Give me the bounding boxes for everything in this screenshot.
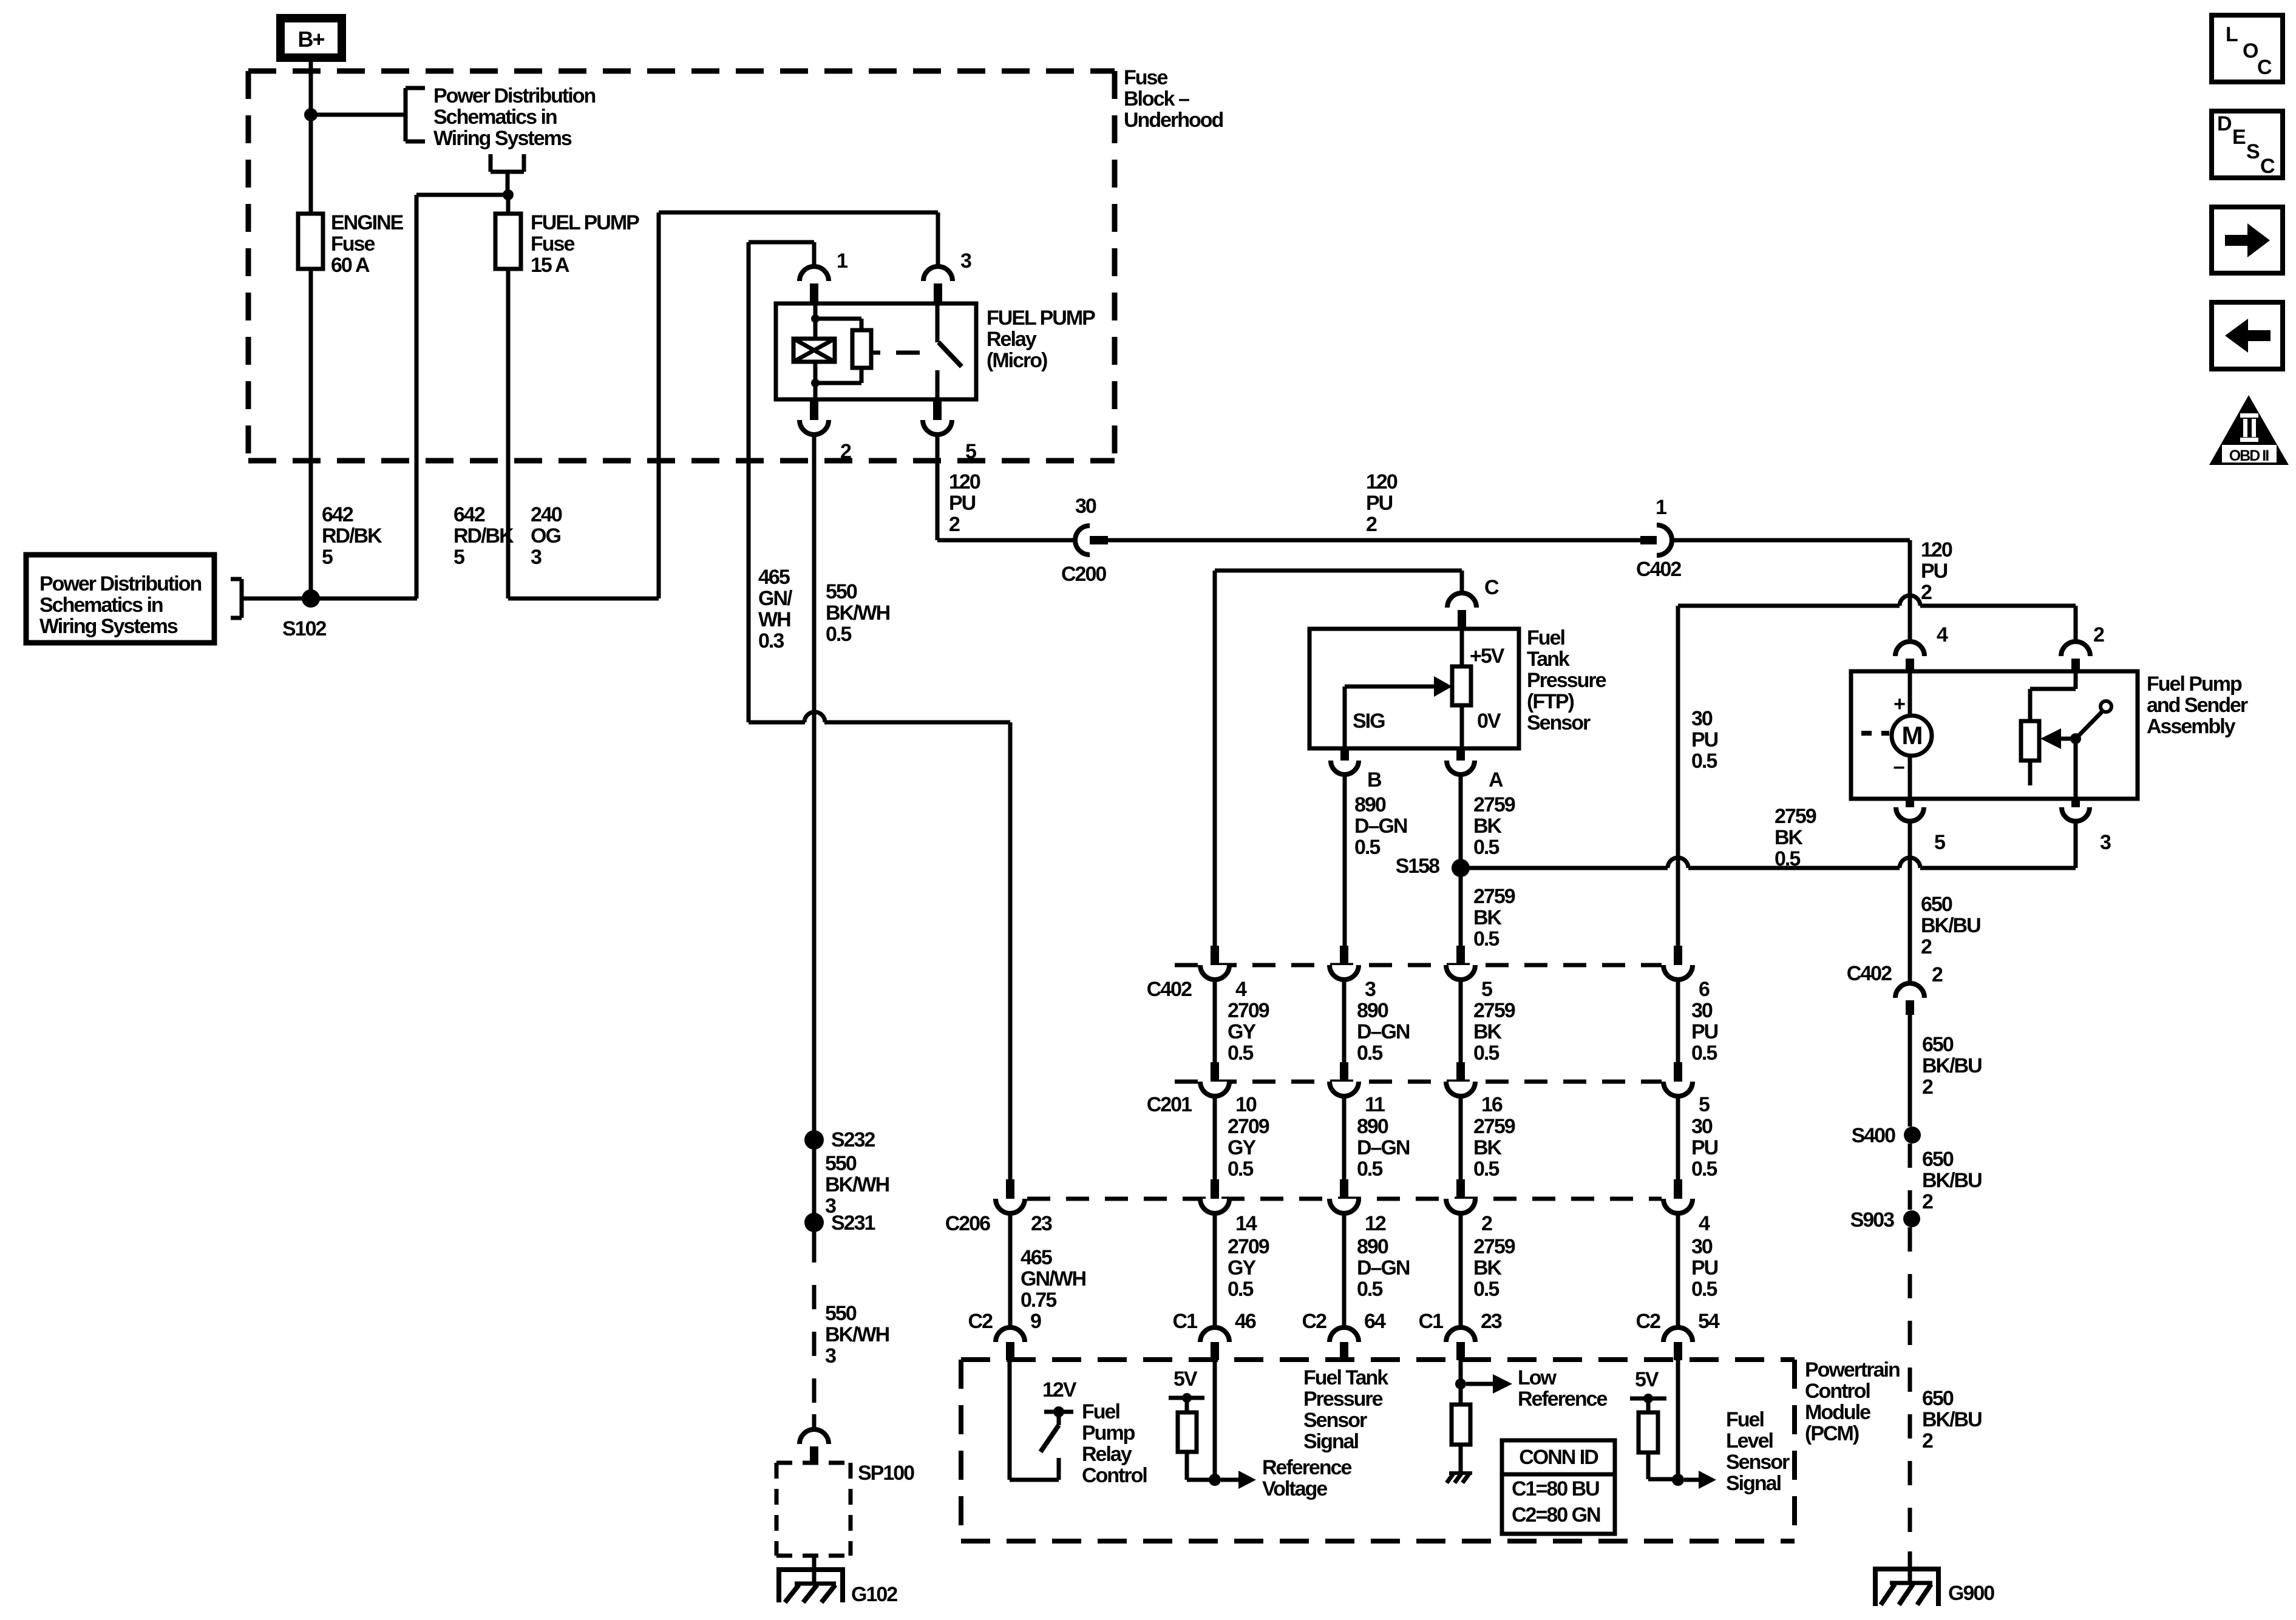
fuse: ENGINE Fuse 60 A bbox=[298, 214, 323, 269]
junction dot at power distribution tap bbox=[304, 108, 318, 121]
svg-text:Power Distribution: Power Distribution bbox=[433, 84, 595, 107]
svg-text:C1=80 BU: C1=80 BU bbox=[1512, 1477, 1599, 1500]
svg-text:D–GN: D–GN bbox=[1357, 1136, 1410, 1159]
svg-text:GN/WH: GN/WH bbox=[1021, 1267, 1086, 1290]
svg-text:23: 23 bbox=[1481, 1310, 1502, 1333]
svg-text:GY: GY bbox=[1228, 1136, 1256, 1159]
icon LOC bbox=[2212, 15, 2283, 82]
svg-text:Assembly: Assembly bbox=[2147, 715, 2236, 738]
svg-text:Pump: Pump bbox=[1082, 1422, 1135, 1445]
relay FUEL PUMP Relay (Micro) box bbox=[776, 303, 976, 399]
svg-text:B: B bbox=[1367, 768, 1382, 791]
svg-text:BK/BU: BK/BU bbox=[1922, 1169, 1982, 1192]
svg-text:Schematics in: Schematics in bbox=[433, 106, 557, 129]
svg-text:C402: C402 bbox=[1147, 978, 1192, 1001]
svg-text:4: 4 bbox=[1699, 1212, 1710, 1235]
svg-text:2: 2 bbox=[1922, 1429, 1933, 1452]
svg-text:2759: 2759 bbox=[1473, 1235, 1515, 1258]
svg-text:C: C bbox=[1484, 576, 1499, 599]
FTP pin A connector bbox=[1456, 748, 1465, 761]
wire 890 D-GN pin B down bbox=[1343, 774, 1347, 946]
svg-text:PU: PU bbox=[1921, 560, 1948, 583]
svg-text:C2=80 GN: C2=80 GN bbox=[1512, 1503, 1600, 1527]
svg-text:C: C bbox=[2260, 155, 2275, 178]
svg-text:642: 642 bbox=[453, 503, 485, 526]
connector row C402 dashed line bbox=[1175, 963, 1662, 968]
svg-text:120: 120 bbox=[1366, 470, 1398, 493]
svg-text:2709: 2709 bbox=[1228, 1235, 1269, 1258]
grid column wires bbox=[1213, 980, 1217, 1062]
FTP pin C connector bbox=[1447, 593, 1476, 608]
wire junction to 642 branch bbox=[416, 193, 508, 197]
wire B+ down to S102 bbox=[309, 62, 313, 214]
PCM pin C1 46 bbox=[1200, 1327, 1229, 1342]
svg-text:0.75: 0.75 bbox=[1021, 1289, 1056, 1312]
wire S158 to assembly pin 3 with hops bbox=[1461, 866, 1668, 870]
splice S400 bbox=[1904, 1127, 1921, 1144]
svg-text:BK/WH: BK/WH bbox=[825, 1173, 889, 1196]
svg-text:5: 5 bbox=[1699, 1093, 1710, 1116]
svg-text:120: 120 bbox=[1921, 538, 1952, 561]
assembly pin 4 connector bbox=[1895, 642, 1924, 656]
svg-text:GY: GY bbox=[1228, 1020, 1256, 1043]
PCM fuel level sensor signal bbox=[1676, 1360, 1680, 1480]
svg-text:0.5: 0.5 bbox=[1473, 1157, 1499, 1181]
left reference box: Power Distribution Schematics in Wiring Systems bbox=[26, 555, 214, 643]
svg-text:Schematics in: Schematics in bbox=[39, 594, 163, 617]
svg-text:30: 30 bbox=[1691, 707, 1713, 730]
svg-text:11: 11 bbox=[1365, 1093, 1385, 1116]
svg-text:2: 2 bbox=[1932, 963, 1943, 986]
svg-text:C402: C402 bbox=[1847, 962, 1892, 985]
assembly pin 2 connector bbox=[2061, 642, 2090, 656]
svg-text:A: A bbox=[1489, 768, 1503, 791]
connector pin 5 at row 1590 bbox=[1456, 946, 1465, 965]
svg-text:B+: B+ bbox=[297, 27, 324, 52]
svg-text:Signal: Signal bbox=[1303, 1430, 1359, 1453]
svg-text:0.3: 0.3 bbox=[758, 629, 784, 652]
relay coil parallel resistor bbox=[815, 317, 861, 321]
wire 465 GN/WH 0.75 below C206 bbox=[1008, 1213, 1013, 1327]
fuel level sender resistor bbox=[2074, 671, 2078, 689]
svg-text:C206: C206 bbox=[945, 1212, 990, 1235]
svg-text:2759: 2759 bbox=[1775, 805, 1816, 828]
svg-text:30: 30 bbox=[1691, 1115, 1713, 1138]
svg-text:D–GN: D–GN bbox=[1357, 1256, 1410, 1279]
connector pin 10 at row 1782 bbox=[1211, 1062, 1219, 1082]
svg-text:2: 2 bbox=[1921, 935, 1932, 958]
svg-text:S903: S903 bbox=[1850, 1208, 1894, 1232]
icon right arrow bbox=[2212, 207, 2283, 273]
PCM fuel pump relay control driver bbox=[1008, 1360, 1012, 1480]
connector pin 12 at row 1975 bbox=[1340, 1179, 1348, 1199]
junction dot above fuel pump fuse bbox=[503, 189, 514, 200]
PCM pin C1 23 bbox=[1446, 1327, 1475, 1342]
splice S231 bbox=[804, 1213, 824, 1232]
svg-text:2: 2 bbox=[1921, 581, 1932, 604]
Fuel Pump and Sender Assembly box bbox=[1851, 671, 2138, 799]
svg-text:Voltage: Voltage bbox=[1262, 1477, 1327, 1500]
svg-text:WH: WH bbox=[758, 608, 790, 631]
svg-text:−: − bbox=[1893, 756, 1904, 779]
svg-text:C2: C2 bbox=[1302, 1310, 1327, 1333]
svg-text:S231: S231 bbox=[831, 1212, 875, 1235]
svg-text:+5V: +5V bbox=[1470, 645, 1505, 668]
svg-text:Control: Control bbox=[1082, 1464, 1147, 1487]
relay coil bbox=[813, 303, 818, 339]
svg-text:C2: C2 bbox=[1636, 1310, 1661, 1333]
svg-text:G102: G102 bbox=[851, 1583, 897, 1606]
svg-text:550: 550 bbox=[825, 1302, 857, 1325]
FTP pin B connector bbox=[1340, 748, 1349, 761]
svg-text:2: 2 bbox=[840, 440, 851, 463]
relay pin 5 connector bbox=[933, 399, 942, 420]
svg-text:1: 1 bbox=[1656, 496, 1666, 519]
svg-text:S102: S102 bbox=[282, 617, 326, 640]
svg-text:E: E bbox=[2232, 126, 2246, 149]
wire 2759 BK pin A down bbox=[1459, 774, 1463, 946]
connector row C201 dashed line bbox=[1175, 1080, 1662, 1084]
dashed wire 650 BK/BU bbox=[1908, 1144, 1912, 1210]
svg-text:5: 5 bbox=[1934, 831, 1945, 854]
svg-text:(FTP): (FTP) bbox=[1527, 690, 1574, 713]
svg-text:PU: PU bbox=[1366, 492, 1393, 515]
FTP internal potentiometer bbox=[1460, 629, 1464, 666]
svg-text:Powertrain: Powertrain bbox=[1805, 1358, 1900, 1381]
splice S158 bbox=[1452, 859, 1470, 877]
svg-text:Fuse: Fuse bbox=[331, 232, 375, 256]
svg-text:S158: S158 bbox=[1396, 855, 1439, 878]
svg-text:GY: GY bbox=[1228, 1256, 1256, 1279]
svg-text:FUEL PUMP: FUEL PUMP bbox=[987, 307, 1095, 330]
svg-text:L: L bbox=[2226, 23, 2238, 46]
bracket: power distribution reference bbox=[404, 88, 408, 141]
svg-text:30: 30 bbox=[1691, 1235, 1713, 1258]
svg-text:C: C bbox=[2257, 56, 2272, 79]
svg-text:650: 650 bbox=[1922, 1387, 1954, 1410]
assembly pin 3 connector bbox=[2071, 799, 2080, 807]
svg-text:30: 30 bbox=[1691, 999, 1713, 1022]
svg-text:BK/WH: BK/WH bbox=[826, 602, 890, 625]
svg-text:3: 3 bbox=[960, 249, 971, 273]
FTP wiper arrow bbox=[1345, 685, 1436, 689]
relay pin 3 connector bbox=[923, 266, 953, 281]
svg-text:+: + bbox=[1894, 693, 1905, 716]
svg-text:Module: Module bbox=[1805, 1401, 1870, 1424]
svg-text:465: 465 bbox=[1021, 1246, 1052, 1269]
PCM pin C2 9 bbox=[996, 1327, 1025, 1342]
fuse: FUEL PUMP Fuse 15 A bbox=[495, 214, 521, 269]
svg-text:0.5: 0.5 bbox=[1473, 1278, 1499, 1301]
svg-text:Block –: Block – bbox=[1124, 87, 1189, 110]
connector pin 2 at row 1975 bbox=[1456, 1179, 1465, 1199]
svg-text:0.5: 0.5 bbox=[826, 623, 851, 646]
svg-text:2709: 2709 bbox=[1228, 1115, 1269, 1138]
svg-text:RD/BK: RD/BK bbox=[322, 524, 382, 547]
svg-text:C1: C1 bbox=[1419, 1310, 1444, 1333]
splice S232 bbox=[804, 1130, 824, 1150]
inline connector C402 pin 2 (650) bbox=[1895, 983, 1924, 998]
svg-text:60 A: 60 A bbox=[331, 254, 370, 277]
icon OBD II triangle bbox=[2209, 395, 2289, 465]
wire 240 OG from fuse to relay pin 3 bbox=[508, 597, 659, 601]
splice S102 bbox=[302, 589, 320, 608]
assembly pin 5 connector bbox=[1906, 799, 1914, 807]
svg-text:0.5: 0.5 bbox=[1473, 1042, 1499, 1065]
svg-text:120: 120 bbox=[949, 470, 980, 493]
svg-text:5V: 5V bbox=[1173, 1368, 1198, 1391]
connector pin 11 at row 1782 bbox=[1340, 1062, 1348, 1082]
svg-text:0.5: 0.5 bbox=[1691, 1278, 1717, 1301]
svg-text:4: 4 bbox=[1937, 623, 1948, 646]
wire 650 BK/BU pin 5 down bbox=[1908, 821, 1912, 983]
svg-text:0V: 0V bbox=[1477, 710, 1501, 733]
wire 5V reference to FTP pin C bbox=[1215, 569, 1462, 573]
svg-text:C402: C402 bbox=[1636, 558, 1681, 581]
wire 465 GN/WH horizontal with hop over 550 bbox=[749, 720, 805, 725]
svg-text:0.5: 0.5 bbox=[1228, 1278, 1253, 1301]
svg-text:890: 890 bbox=[1357, 1235, 1388, 1258]
svg-text:C201: C201 bbox=[1147, 1093, 1192, 1116]
wire bracket to S102 to 642 branch bbox=[242, 597, 417, 601]
svg-text:23: 23 bbox=[1031, 1212, 1052, 1235]
svg-text:2: 2 bbox=[1481, 1212, 1492, 1235]
svg-text:Wiring Systems: Wiring Systems bbox=[39, 615, 178, 638]
wire to power distribution bracket bbox=[311, 113, 406, 117]
svg-text:and Sender: and Sender bbox=[2147, 694, 2248, 717]
svg-text:0.5: 0.5 bbox=[1775, 847, 1800, 870]
svg-text:30: 30 bbox=[1075, 495, 1096, 518]
svg-text:BK/WH: BK/WH bbox=[825, 1323, 889, 1346]
icon left arrow bbox=[2212, 302, 2283, 369]
svg-text:O: O bbox=[2243, 39, 2258, 63]
svg-text:Wiring Systems: Wiring Systems bbox=[433, 127, 572, 150]
svg-text:0.5: 0.5 bbox=[1691, 750, 1717, 773]
svg-text:890: 890 bbox=[1357, 1115, 1388, 1138]
svg-text:RD/BK: RD/BK bbox=[453, 524, 514, 547]
svg-text:2: 2 bbox=[1366, 513, 1377, 536]
svg-text:PU: PU bbox=[1691, 728, 1718, 751]
svg-text:2: 2 bbox=[1922, 1076, 1933, 1099]
svg-text:2759: 2759 bbox=[1473, 999, 1515, 1022]
PCM low reference bbox=[1459, 1360, 1463, 1405]
svg-text:BK: BK bbox=[1473, 815, 1503, 838]
svg-text:Sensor: Sensor bbox=[1303, 1409, 1367, 1432]
svg-text:Reference: Reference bbox=[1518, 1388, 1608, 1411]
svg-text:D: D bbox=[2217, 112, 2232, 135]
connector pin 4 at row 1975 bbox=[1674, 1179, 1682, 1199]
svg-text:Sensor: Sensor bbox=[1527, 711, 1591, 734]
svg-text:2709: 2709 bbox=[1228, 999, 1269, 1022]
svg-text:PU: PU bbox=[1691, 1256, 1718, 1279]
svg-text:CONN ID: CONN ID bbox=[1519, 1446, 1598, 1469]
wire C402 to assembly pin 4 bbox=[1672, 538, 1910, 543]
splice S903 bbox=[1903, 1210, 1920, 1227]
PCM pin C2 54 bbox=[1663, 1327, 1693, 1342]
PCM 5V reference voltage bbox=[1213, 1360, 1217, 1480]
svg-text:PU: PU bbox=[949, 492, 976, 515]
wire C200 to C402 bbox=[1108, 538, 1642, 543]
svg-text:465: 465 bbox=[758, 566, 790, 589]
svg-text:Fuse: Fuse bbox=[1124, 66, 1167, 89]
svg-text:0.5: 0.5 bbox=[1473, 836, 1499, 859]
svg-text:Relay: Relay bbox=[987, 328, 1037, 351]
svg-text:BK: BK bbox=[1473, 1136, 1503, 1159]
svg-text:Level: Level bbox=[1726, 1429, 1773, 1452]
relay pin 2 connector bbox=[810, 399, 818, 420]
svg-text:BK: BK bbox=[1775, 826, 1804, 849]
svg-text:Power Distribution: Power Distribution bbox=[39, 572, 201, 595]
svg-text:Fuse: Fuse bbox=[531, 232, 574, 256]
svg-text:M: M bbox=[1902, 721, 1922, 750]
svg-text:SIG: SIG bbox=[1353, 710, 1385, 733]
svg-text:Fuel: Fuel bbox=[1726, 1408, 1764, 1431]
svg-text:0.5: 0.5 bbox=[1228, 1157, 1253, 1181]
svg-text:2759: 2759 bbox=[1473, 885, 1515, 908]
wire 120 PU from relay pin 5 bbox=[936, 435, 940, 540]
svg-text:Fuel Tank: Fuel Tank bbox=[1303, 1366, 1388, 1389]
svg-text:D–GN: D–GN bbox=[1357, 1020, 1410, 1043]
relay mechanical link dashes bbox=[872, 351, 880, 355]
svg-text:5: 5 bbox=[322, 546, 333, 569]
connector pin 16 at row 1782 bbox=[1456, 1062, 1465, 1082]
svg-text:BK: BK bbox=[1473, 1020, 1503, 1043]
svg-text:FUEL PUMP: FUEL PUMP bbox=[531, 211, 639, 234]
svg-text:0.5: 0.5 bbox=[1357, 1042, 1382, 1065]
svg-text:3: 3 bbox=[2100, 831, 2111, 854]
svg-text:Pressure: Pressure bbox=[1527, 669, 1606, 692]
svg-text:16: 16 bbox=[1481, 1093, 1503, 1116]
wire 30 PU assembly pin 2 to C402 pin 6 bbox=[1678, 604, 1900, 608]
svg-text:S400: S400 bbox=[1852, 1124, 1895, 1147]
svg-text:3: 3 bbox=[531, 546, 542, 569]
connector pin 3 at row 1590 bbox=[1340, 946, 1348, 965]
svg-text:890: 890 bbox=[1357, 999, 1388, 1022]
svg-text:890: 890 bbox=[1354, 793, 1386, 816]
svg-text:0.5: 0.5 bbox=[1691, 1157, 1717, 1181]
sender wiper arrow bbox=[2040, 728, 2061, 749]
svg-text:BK/BU: BK/BU bbox=[1922, 1054, 1982, 1077]
svg-text:0.5: 0.5 bbox=[1357, 1157, 1382, 1181]
svg-text:Signal: Signal bbox=[1726, 1472, 1781, 1495]
svg-text:S232: S232 bbox=[831, 1128, 875, 1151]
svg-text:D–GN: D–GN bbox=[1354, 815, 1407, 838]
svg-text:OBD II: OBD II bbox=[2229, 447, 2269, 464]
relay pin 1 connector bbox=[800, 266, 829, 281]
icon DESC bbox=[2212, 111, 2283, 178]
connector pin 14 at row 1975 bbox=[1211, 1179, 1219, 1199]
svg-text:550: 550 bbox=[826, 580, 857, 603]
connector to SP100 bbox=[800, 1429, 829, 1444]
svg-text:Fuel: Fuel bbox=[1527, 626, 1564, 649]
battery feed B+ bbox=[280, 18, 342, 58]
svg-text:Underhood: Underhood bbox=[1124, 109, 1223, 132]
svg-text:PU: PU bbox=[1691, 1020, 1718, 1043]
PCM pin C2 64 bbox=[1330, 1327, 1359, 1342]
svg-text:5: 5 bbox=[1481, 978, 1492, 1001]
svg-text:5: 5 bbox=[453, 546, 464, 569]
sender switch arm and contact bbox=[2079, 712, 2102, 736]
svg-text:12: 12 bbox=[1365, 1212, 1386, 1235]
svg-text:(PCM): (PCM) bbox=[1805, 1422, 1859, 1445]
relay switch bbox=[936, 303, 940, 342]
svg-text:0.5: 0.5 bbox=[1228, 1042, 1253, 1065]
svg-text:3: 3 bbox=[825, 1344, 836, 1368]
svg-text:S: S bbox=[2246, 140, 2260, 163]
ground G900 bbox=[1908, 1551, 1912, 1584]
svg-text:642: 642 bbox=[322, 503, 353, 526]
svg-text:Low: Low bbox=[1518, 1366, 1557, 1389]
connector pin 23 C206 bbox=[1006, 1179, 1014, 1199]
svg-text:PU: PU bbox=[1691, 1136, 1718, 1159]
svg-text:Tank: Tank bbox=[1527, 648, 1570, 671]
svg-text:GN/: GN/ bbox=[758, 587, 793, 610]
Powertrain Control Module dashed box bbox=[961, 1357, 1795, 1362]
fuse block underhood dashed box bbox=[248, 69, 1115, 74]
svg-text:5: 5 bbox=[965, 440, 976, 463]
svg-text:BK/BU: BK/BU bbox=[1921, 914, 1980, 937]
bracket right of box bbox=[240, 579, 244, 618]
svg-text:2: 2 bbox=[2093, 623, 2104, 646]
svg-text:SP100: SP100 bbox=[858, 1462, 914, 1485]
svg-text:Pressure: Pressure bbox=[1303, 1388, 1383, 1411]
svg-text:0.5: 0.5 bbox=[1473, 927, 1499, 951]
dashed wire 550 BK/WH below S231 bbox=[812, 1238, 817, 1414]
svg-text:2: 2 bbox=[1922, 1190, 1933, 1213]
svg-text:46: 46 bbox=[1235, 1310, 1256, 1333]
U bracket under text bbox=[489, 154, 493, 172]
svg-text:C200: C200 bbox=[1061, 563, 1106, 586]
fuel pump motor M bbox=[1908, 671, 1912, 716]
wire 550 BK/WH relay pin2 down bbox=[812, 435, 817, 1238]
svg-text:OG: OG bbox=[531, 524, 560, 547]
svg-text:C2: C2 bbox=[968, 1310, 993, 1333]
svg-text:2: 2 bbox=[949, 513, 960, 536]
svg-text:14: 14 bbox=[1235, 1212, 1257, 1235]
svg-text:240: 240 bbox=[531, 503, 562, 526]
svg-text:2759: 2759 bbox=[1473, 1115, 1515, 1138]
Fuel Tank Pressure FTP Sensor box bbox=[1309, 629, 1519, 748]
svg-text:0.5: 0.5 bbox=[1691, 1042, 1717, 1065]
dashes left of motor bbox=[1861, 731, 1872, 736]
inline connector C200 pin 30 bbox=[1075, 526, 1090, 555]
connector pin 4 at row 1590 bbox=[1211, 946, 1219, 965]
svg-text:650: 650 bbox=[1922, 1033, 1954, 1056]
svg-text:Sensor: Sensor bbox=[1726, 1451, 1790, 1474]
svg-text:Fuel: Fuel bbox=[1082, 1400, 1119, 1423]
svg-text:BK: BK bbox=[1473, 906, 1503, 929]
connector row C206 dashed line bbox=[1027, 1197, 1662, 1201]
splice pack SP100 dashed box bbox=[776, 1461, 851, 1465]
svg-text:(Micro): (Micro) bbox=[987, 349, 1047, 372]
svg-text:Reference: Reference bbox=[1262, 1456, 1352, 1479]
svg-text:64: 64 bbox=[1364, 1310, 1386, 1333]
svg-text:10: 10 bbox=[1235, 1093, 1257, 1116]
svg-text:Control: Control bbox=[1805, 1380, 1870, 1403]
svg-text:2759: 2759 bbox=[1473, 793, 1515, 816]
svg-text:Relay: Relay bbox=[1082, 1443, 1132, 1466]
connector pin 5 at row 1782 bbox=[1674, 1062, 1682, 1082]
svg-text:650: 650 bbox=[1922, 1148, 1954, 1171]
svg-text:G900: G900 bbox=[1948, 1582, 1994, 1605]
svg-text:3: 3 bbox=[1365, 978, 1376, 1001]
svg-text:15 A: 15 A bbox=[531, 254, 569, 277]
svg-text:BK/BU: BK/BU bbox=[1922, 1408, 1982, 1431]
PCM internal ground bbox=[1449, 1471, 1472, 1475]
svg-text:6: 6 bbox=[1699, 978, 1710, 1001]
wire to relay pin 1 (465 GN/WH) bbox=[749, 240, 814, 245]
svg-text:12V: 12V bbox=[1042, 1378, 1077, 1401]
